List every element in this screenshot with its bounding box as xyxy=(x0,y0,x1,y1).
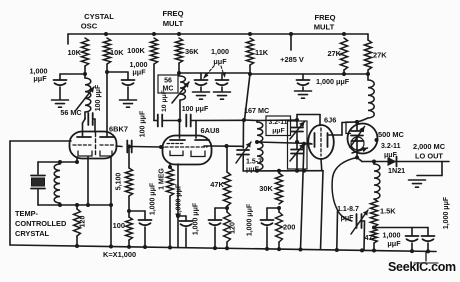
tube V1 6BK7 xyxy=(70,132,117,159)
label 6AU8 xyxy=(201,126,220,135)
svg-text:MULT: MULT xyxy=(314,23,335,32)
arrow variable inductor 2 xyxy=(172,82,189,103)
svg-text:μμF: μμF xyxy=(341,215,355,222)
svg-text:μμF: μμF xyxy=(387,239,401,248)
label 1.1-8.7uuF xyxy=(337,206,359,222)
wire ground rail xyxy=(10,245,436,252)
ground xyxy=(120,100,137,107)
wire cathode 1 xyxy=(76,157,78,162)
svg-text:6AU8: 6AU8 xyxy=(201,126,220,135)
inductor plate choke 500MC xyxy=(357,74,374,122)
wire left rail xyxy=(9,141,11,245)
capacitor 3.2-11uuF upper xyxy=(290,120,305,139)
ground xyxy=(295,91,312,98)
inductor 167MC coil xyxy=(244,120,263,171)
label +285V xyxy=(280,55,304,64)
wire osc plate node xyxy=(60,66,87,76)
wire tank bottom xyxy=(243,169,323,173)
resistor 11K xyxy=(246,38,268,65)
svg-text:1,000 μμF: 1,000 μμF xyxy=(193,202,200,235)
capacitor 3.2-11uuF internal xyxy=(350,120,368,160)
resistor 120 cathode xyxy=(74,205,81,248)
svg-text:500 MC: 500 MC xyxy=(378,130,405,139)
svg-text:μμF: μμF xyxy=(384,152,398,159)
svg-text:2,000 MC: 2,000 MC xyxy=(413,142,446,151)
tube 500MC cavity tripler xyxy=(348,124,378,154)
svg-text:11K: 11K xyxy=(255,48,269,57)
label 120 vertical xyxy=(230,222,237,234)
inductor crystal shunt coil xyxy=(54,162,60,205)
label 6BK7 xyxy=(109,125,128,134)
resistor 47 xyxy=(371,226,377,253)
label 10uuF vertical xyxy=(161,90,168,112)
node bus junctions xyxy=(104,32,346,36)
wire 100K down xyxy=(153,64,155,121)
label TEMP-CONTROLLED CRYSTAL xyxy=(15,209,67,238)
wire tank mid tap xyxy=(257,140,311,146)
wire 10K to tube xyxy=(105,64,109,132)
resistor 30K xyxy=(259,171,282,210)
svg-text:CONTROLLED: CONTROLLED xyxy=(15,219,67,228)
label 1,000uuF xyxy=(316,77,350,86)
ground xyxy=(193,92,210,99)
wire 6J6 cathode xyxy=(320,159,323,171)
inductor 56MC variable xyxy=(85,74,91,118)
capacitor 1,000uuF osc bypass xyxy=(54,74,67,99)
capacitor 1,000uuF screen bypass B xyxy=(216,73,229,91)
resistor 47K xyxy=(210,146,230,210)
resistor 100 xyxy=(126,209,133,249)
svg-text:27K: 27K xyxy=(373,51,387,60)
inductor 56MC variable 2 xyxy=(180,76,185,121)
wire +285V stub xyxy=(290,34,292,50)
svg-text:1.5K: 1.5K xyxy=(380,207,396,216)
resistor 120 screen xyxy=(224,208,231,250)
arrow variable inductor xyxy=(76,87,94,110)
svg-text:120: 120 xyxy=(230,222,237,234)
label 120 vertical xyxy=(80,216,87,228)
wire V2 plate xyxy=(211,144,243,148)
tube V3 6J6 xyxy=(308,125,334,159)
node rail junctions xyxy=(109,245,281,252)
crystal temp-controlled xyxy=(31,162,45,205)
diode 1N21 xyxy=(388,157,397,167)
svg-text:10K: 10K xyxy=(67,48,81,57)
svg-text:47: 47 xyxy=(365,233,373,242)
capacitor 1,000uuF buffer bypass xyxy=(107,72,135,99)
svg-text:1.1-8.7: 1.1-8.7 xyxy=(337,206,359,213)
svg-text:μμF: μμF xyxy=(132,68,146,77)
wire cathode V2 xyxy=(176,164,180,248)
resistor 27K a xyxy=(327,38,347,70)
svg-text:FREQ: FREQ xyxy=(162,9,183,18)
svg-text:56: 56 xyxy=(164,78,172,85)
wire tank bottom xyxy=(38,203,113,207)
svg-text:μμF: μμF xyxy=(213,57,227,66)
svg-text:56 MC: 56 MC xyxy=(60,108,81,117)
svg-text:6BK7: 6BK7 xyxy=(109,125,128,134)
svg-text:47K: 47K xyxy=(210,180,224,189)
svg-text:100K: 100K xyxy=(127,46,145,55)
resistor 1 MEG grid leak xyxy=(166,164,173,249)
svg-text:1,000 μμF: 1,000 μμF xyxy=(443,196,450,229)
arrow trimmer xyxy=(236,142,251,163)
capacitor 1,000uuF B+ bypass xyxy=(297,74,310,90)
wire feedback arc xyxy=(332,158,357,222)
label 167 MC xyxy=(244,106,269,115)
svg-text:6J6: 6J6 xyxy=(324,116,336,125)
wire tank bottom to rail xyxy=(321,171,324,250)
box label 56 MC xyxy=(158,75,178,93)
inductor cathode coil xyxy=(374,162,380,200)
label 3.2-11uuF xyxy=(381,143,401,159)
label 200 xyxy=(283,223,295,232)
svg-text:1,000 μμF: 1,000 μμF xyxy=(150,182,157,215)
capacitor 1,000uuF cathode3 xyxy=(261,208,280,249)
ground xyxy=(52,100,69,107)
wire tank top to caps xyxy=(257,118,299,122)
label 100uuF vertical xyxy=(140,110,147,137)
wire screen node xyxy=(177,63,250,76)
label 500 MC xyxy=(378,130,405,139)
wire to output caps xyxy=(374,227,428,229)
wire grid pins xyxy=(180,121,197,139)
svg-text:100 μμF: 100 μμF xyxy=(95,84,102,111)
svg-text:120: 120 xyxy=(80,216,87,228)
label 56 MC xyxy=(60,108,81,117)
wire 27K bottoms xyxy=(344,70,368,74)
capacitor 1,000uuF screen bypass A xyxy=(195,73,208,91)
svg-text:30K: 30K xyxy=(259,184,273,193)
label 1 MEG vertical xyxy=(159,168,166,190)
wire arc to rail xyxy=(335,211,339,252)
wire grid return xyxy=(10,140,71,142)
label 1,000uuF vertical xyxy=(193,202,200,235)
wire tank top xyxy=(38,160,79,164)
svg-text:μμF: μμF xyxy=(33,74,47,83)
ground xyxy=(214,92,231,99)
capacitor 100uuF coupling xyxy=(116,141,164,153)
svg-text:1,000 μμF: 1,000 μμF xyxy=(316,77,350,86)
box split capacitor xyxy=(288,121,308,169)
wire 11K to tank xyxy=(242,74,250,122)
svg-text:167 MC: 167 MC xyxy=(244,106,269,115)
svg-text:CYSTAL: CYSTAL xyxy=(84,12,114,21)
wire 6J6 plate top xyxy=(297,115,320,126)
wire grid coupling chain xyxy=(154,115,244,127)
wire 6J6 plate right xyxy=(328,120,360,135)
resistor 100K xyxy=(127,38,157,64)
label FREQ MULT 1 xyxy=(162,9,183,28)
label 1,000uuF xyxy=(383,231,402,249)
label 1,000uuF xyxy=(30,67,48,84)
svg-text:3.2-11: 3.2-11 xyxy=(381,143,401,150)
svg-text:10K: 10K xyxy=(110,48,124,57)
label 100uuF vertical xyxy=(95,84,102,111)
resistor 27K b xyxy=(364,34,387,70)
resistor 1.5K xyxy=(370,199,396,227)
svg-text:OSC: OSC xyxy=(81,22,98,31)
svg-text:1N21: 1N21 xyxy=(388,166,405,175)
svg-text:MULT: MULT xyxy=(163,19,184,28)
svg-text:FREQ: FREQ xyxy=(314,13,335,22)
watermark SeekIC.com xyxy=(388,252,456,275)
svg-text:36K: 36K xyxy=(185,47,199,56)
label 1N21 xyxy=(388,166,405,175)
svg-text:CRYSTAL: CRYSTAL xyxy=(15,229,50,238)
svg-text:+285 V: +285 V xyxy=(280,55,304,64)
wire 11K node xyxy=(248,65,370,76)
wire B+ bus xyxy=(68,34,368,44)
capacitor 1,000uuF out A xyxy=(406,228,419,254)
svg-text:5,100: 5,100 xyxy=(116,173,123,191)
svg-text:1 MEG: 1 MEG xyxy=(159,168,166,190)
capacitor 3.2-11uuF lower xyxy=(290,132,305,171)
resistor 200 xyxy=(276,208,283,249)
label 5,100 vertical xyxy=(116,173,123,191)
resistor 10K osc plate xyxy=(67,38,88,66)
svg-text:SeekIC.com: SeekIC.com xyxy=(388,260,456,274)
label 100uuF xyxy=(182,106,209,113)
wire grid return to rail xyxy=(299,144,305,252)
ground output xyxy=(409,162,443,188)
capacitor 1.5-7uuF trimmer xyxy=(237,120,249,171)
svg-text:TEMP-: TEMP- xyxy=(15,209,39,218)
label 47 xyxy=(365,233,373,242)
label K=X1,000 xyxy=(103,250,136,259)
svg-text:3.2-11: 3.2-11 xyxy=(269,119,288,126)
svg-text:100 μμF: 100 μμF xyxy=(140,110,147,137)
wire output xyxy=(357,158,449,164)
capacitor 1,000uuF plate bypass xyxy=(209,208,228,250)
label 1,000uuF vertical xyxy=(176,183,183,216)
svg-text:K=X1,000: K=X1,000 xyxy=(103,250,136,259)
svg-text:10 μμF: 10 μμF xyxy=(161,90,168,112)
label CYSTAL OSC xyxy=(81,12,115,31)
label 1,000uuF xyxy=(130,60,148,77)
svg-text:27K: 27K xyxy=(327,49,341,58)
capacitor 100uuF series xyxy=(83,113,96,137)
label 2,000 MC LO OUT xyxy=(413,142,446,161)
resistor 10K buffer plate xyxy=(103,38,124,64)
label 1,000uuF vertical xyxy=(247,203,254,236)
resistor 36K xyxy=(175,38,199,63)
svg-text:μμF: μμF xyxy=(272,128,284,135)
wire plate loop xyxy=(346,122,356,134)
label 100 xyxy=(113,221,125,230)
capacitor 1.1-8.7uuF trimmer xyxy=(357,214,365,252)
wire 6J6 grid left xyxy=(304,143,312,145)
box label 3.2-11uuF xyxy=(266,116,291,136)
capacitor 1,000uuF cathode1 xyxy=(129,211,152,249)
label 1.5-7uuF xyxy=(246,159,262,174)
node 500MC output xyxy=(375,138,379,142)
capacitor 1,000uuF cathode2 xyxy=(178,216,193,248)
wire cathode 3 xyxy=(110,156,112,247)
capacitor 1,000uuF out B xyxy=(422,228,435,254)
svg-text:100 μμF: 100 μμF xyxy=(182,106,209,113)
svg-text:LO OUT: LO OUT xyxy=(415,152,443,161)
arrow trimmer 2 xyxy=(351,210,368,234)
label 1,000uuF vertical xyxy=(150,182,157,215)
svg-text:1,000: 1,000 xyxy=(211,47,229,56)
svg-text:1,000 μμF: 1,000 μμF xyxy=(247,203,254,236)
label 1,000uuF with arrows xyxy=(203,47,229,79)
svg-text:1,000 μμF: 1,000 μμF xyxy=(176,183,183,216)
label 6J6 xyxy=(324,116,336,125)
resistor 5,100 xyxy=(125,145,132,218)
tube V2 6AU8 xyxy=(163,136,212,165)
wire cathode 2 xyxy=(87,157,89,205)
svg-text:200: 200 xyxy=(283,223,295,232)
label FREQ MULT 2 xyxy=(314,13,336,32)
svg-text:100: 100 xyxy=(113,221,125,230)
label 1,000uuF vertical xyxy=(443,196,450,229)
